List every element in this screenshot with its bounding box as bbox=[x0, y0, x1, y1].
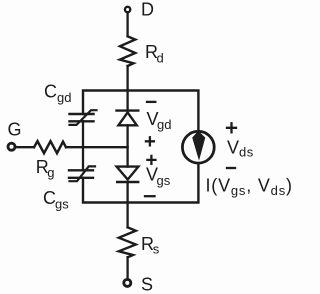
capacitor Cgd bbox=[70, 110, 97, 125]
resistor Rd bbox=[120, 36, 135, 66]
minus sign of Vgd bbox=[147, 101, 155, 103]
wire Rs to S bbox=[126, 257, 128, 279]
svg-text:Cgd: Cgd bbox=[44, 81, 71, 104]
left rail wire middle segment bbox=[82, 121, 84, 170]
terminal G bbox=[8, 143, 15, 150]
svg-text:D: D bbox=[141, 0, 154, 20]
svg-text:Vds: Vds bbox=[227, 137, 254, 159]
resistor Rg bbox=[34, 141, 66, 153]
wire G to Rg bbox=[16, 146, 35, 148]
resistor Rs bbox=[119, 227, 136, 257]
svg-text:Vgs: Vgs bbox=[146, 165, 171, 188]
plus sign of Vds bbox=[227, 123, 236, 132]
wire Rd to node, through top rail, to diode Vgd bbox=[126, 66, 128, 111]
svg-text:I(Vgs, Vds): I(Vgs, Vds) bbox=[206, 175, 293, 198]
wire D to Rd bbox=[126, 13, 128, 37]
svg-text:S: S bbox=[141, 274, 153, 294]
terminal D bbox=[125, 7, 130, 12]
plus sign of Vgd bbox=[146, 137, 154, 145]
plus sign of Vgs bbox=[147, 156, 155, 164]
svg-text:Rs: Rs bbox=[141, 234, 160, 257]
wire Vgd to Vgs bbox=[126, 125, 128, 166]
capacitor Cgs bbox=[69, 166, 95, 181]
svg-text:Rd: Rd bbox=[145, 42, 164, 65]
svg-text:G: G bbox=[8, 120, 22, 140]
svg-text:Rg: Rg bbox=[36, 157, 55, 180]
top rail wire bbox=[83, 91, 198, 131]
svg-text:Vgd: Vgd bbox=[147, 109, 172, 132]
terminal S bbox=[124, 279, 131, 286]
current source I(Vgs,Vds) bbox=[182, 131, 214, 163]
minus sign of Vds bbox=[227, 167, 235, 169]
wire Rg to left rail bbox=[66, 146, 83, 148]
wire Vgs through bottom rail to Rs bbox=[126, 182, 128, 227]
diode Vgs (pointing down, cathode bar below) bbox=[117, 167, 139, 182]
wire left rail to center node between diodes bbox=[83, 146, 128, 148]
svg-text:Cgs: Cgs bbox=[43, 188, 69, 211]
minus sign of Vgs bbox=[145, 195, 155, 197]
diode Vgd (pointing up, cathode bar on top) bbox=[117, 111, 139, 126]
left rail wire lower segment + bottom rail bbox=[83, 164, 198, 203]
